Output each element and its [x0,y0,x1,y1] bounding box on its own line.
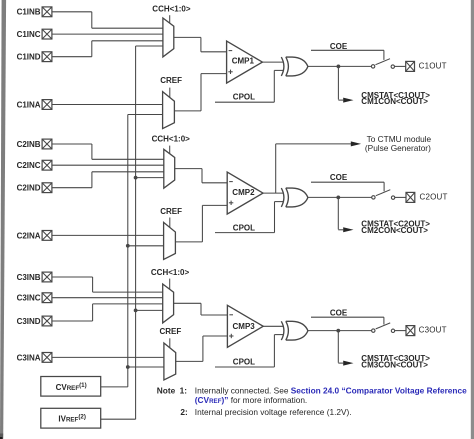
svg-text:Note: Note [157,385,176,395]
svg-text:CREF: CREF [160,207,182,216]
svg-text:CM2CON<COUT>: CM2CON<COUT> [361,226,428,235]
junction node (section 2) [336,196,340,200]
svg-text:COE: COE [330,308,348,317]
label CMSTAT/CM2CON bits [361,220,430,236]
label CMSTAT/CM1CON bits [361,91,430,106]
pin C2INA [17,231,52,241]
voltage reference IVREF [41,408,101,428]
pin C3IND [17,316,52,326]
wire to status bits (section 2) [338,197,343,229]
wire XOR output to switch [308,196,372,198]
switch (output enable, section 3) [372,323,395,333]
pin C3OUT [406,326,447,336]
svg-text:C1INC: C1INC [17,30,41,39]
svg-text:Internal precision voltage ref: Internal precision voltage reference (1.… [195,407,352,417]
wire CREF select (section 3) [169,338,171,349]
pin C3INB [17,272,52,282]
wire CREF mux output to CMP3 non-inverting input [176,336,228,361]
svg-text:C2INC: C2INC [17,161,41,170]
wire C3IND to CCH mux input 3 [52,304,163,321]
mux CCH (section 2) [164,149,175,188]
svg-text:CMP1: CMP1 [232,57,255,66]
wire C2INA to CREF mux input 1 [52,234,164,236]
svg-text:C1IND: C1IND [17,53,41,62]
svg-text:Internally connected. See Sect: Internally connected. See Section 24.0 “… [195,385,467,395]
node CVREF tap 2 [126,244,130,248]
wire CCH mux output to CMP2 inverting input [175,169,228,183]
wire CREF select (section 1) [169,88,171,98]
wire XOR output to switch [308,65,371,67]
pin C1IND [17,52,52,62]
mux CREF (section 2) [164,222,176,259]
arrow to status bits (section 2) [343,227,353,232]
svg-text:CREF: CREF [160,327,182,336]
mux CREF (section 1) [163,92,175,129]
wire COE enable to switch [311,182,384,191]
wire CCH select (section 3) [169,279,171,290]
svg-text:CCH<1:0>: CCH<1:0> [152,135,191,144]
svg-text:C1OUT: C1OUT [419,62,447,71]
op-amp CMP1 [227,41,263,83]
pin C2OUT [406,192,448,202]
wire C1INB to CCH mux input 1 [52,12,163,28]
svg-text:C1INB: C1INB [17,8,41,17]
switch (output enable, section 1) [371,59,394,69]
wire C3INC to CCH mux input 2 [52,297,163,299]
wire C3INB to CCH mux input 1 [52,277,163,292]
svg-text:C2INB: C2INB [17,140,41,149]
wire CMP3 output to XOR [263,325,284,327]
pin C1INB [17,7,52,17]
wire CREF mux output to CMP2 non-inverting input [175,205,227,242]
op-amp CMP3 [227,305,263,347]
wire CVREF output bus [101,115,163,387]
junction node (section 3) [336,329,340,333]
svg-text:(Pulse Generator): (Pulse Generator) [365,143,431,153]
svg-text:C3INB: C3INB [17,273,41,282]
note 2 text [180,407,351,417]
wire CCH select (section 2) [169,146,171,155]
svg-text:CPOL: CPOL [233,223,255,232]
pin C3INC [17,293,52,303]
svg-text:CM3CON<COUT>: CM3CON<COUT> [361,361,428,370]
wire CPOL to XOR input (section 1) [215,70,284,102]
wire C2INB to CCH mux input 1 [52,144,164,159]
mux CCH (section 3) [163,284,174,323]
wire COE enable to switch [311,317,384,324]
svg-text:C3INC: C3INC [17,294,41,303]
node IVREF tap 3 [134,309,138,313]
note 1 text [157,385,467,405]
wire COE enable to switch [311,50,384,60]
wire CPOL to XOR input (section 2) [215,202,284,233]
wire IVREF output bus [101,46,163,419]
wire to status bits (section 1) [338,66,343,100]
xor gate (polarity, section 3) [281,321,308,340]
pin C1OUT [406,61,447,71]
pin C1INC [17,29,52,39]
svg-text:CCH<1:0>: CCH<1:0> [152,5,191,14]
wire CCH mux output to CMP1 inverting input [174,37,227,51]
wire CVREF tap to CREF mux 2 [128,245,164,247]
wire CVREF tap to CREF mux 3 [128,366,164,368]
svg-text:CCH<1:0>: CCH<1:0> [151,268,190,277]
wire switch to C3OUT pin [395,330,406,332]
wire CMP2 output to XOR [263,192,284,194]
wire CPOL to XOR input (section 3) [215,335,284,367]
wire CCH mux output to CMP3 inverting input [174,303,228,315]
xor gate (polarity, section 2) [281,188,308,207]
wire CREF mux output to CMP1 non-inverting input [174,74,226,111]
wire CCH select (section 1) [169,15,171,23]
pin C2IND [17,183,52,193]
wire C1INC to CCH mux input 2 [52,33,163,35]
decorative left page edge (unlabelled ok) [0,0,6,439]
mux CCH (section 1) [163,18,174,57]
wire to status bits (section 3) [338,331,343,364]
wire C1IND to CCH mux input 3 [52,41,163,57]
op-amp CMP2 [227,172,263,214]
pin C3INA [17,353,52,363]
wire switch to C1OUT pin [395,65,406,67]
voltage reference CVREF [41,377,101,397]
svg-text:C3INA: C3INA [17,353,41,362]
svg-text:CMP2: CMP2 [232,188,255,197]
wire switch to C2OUT pin [395,196,406,198]
node CVREF tap 3 [126,365,130,369]
svg-text:CMP3: CMP3 [233,322,256,331]
label To CTMU module [365,134,432,153]
wire C2IND to CCH mux input 3 [52,172,164,188]
arrow to CTMU module [351,141,361,146]
pin C2INB [17,139,52,149]
junction node (section 1) [337,65,341,69]
arrow to status bits (section 1) [343,98,353,103]
svg-text:C3OUT: C3OUT [419,326,447,335]
wire XOR output to switch [308,330,372,332]
svg-text:COE: COE [330,42,348,51]
svg-text:C2OUT: C2OUT [420,193,448,202]
svg-text:CM1CON<COUT>: CM1CON<COUT> [361,97,428,106]
wire IVREF tap to CCH mux 3 [136,309,163,311]
wire IVREF tap to CCH mux 2 [136,177,164,179]
wire C3INA to CREF mux input 1 [52,356,164,358]
node IVREF tap 2 [134,176,138,180]
svg-text:CREF: CREF [160,76,182,85]
svg-text:CPOL: CPOL [233,358,255,367]
switch (output enable, section 2) [372,190,395,200]
mux CREF (section 3) [164,343,176,380]
svg-text:2:: 2: [180,407,187,417]
pin C2INC [17,160,52,170]
label CMSTAT/CM3CON bits [361,354,430,369]
svg-text:C2INA: C2INA [17,231,41,240]
wire CREF select (section 2) [169,218,171,229]
wire C1INA to CREF mux input 1 [52,104,163,106]
wire CMP1 output to XOR [262,61,283,63]
pin C1INA [17,100,52,110]
svg-text:C3IND: C3IND [17,317,41,326]
arrow to status bits (section 3) [343,361,353,366]
svg-text:1:: 1: [180,385,187,395]
svg-text:C1INA: C1INA [17,100,41,109]
svg-text:C2IND: C2IND [17,184,41,193]
wire CMP2 output to CTMU module [276,144,352,193]
svg-text:COE: COE [330,173,348,182]
xor gate (polarity, section 1) [281,57,308,76]
wire C2INC to CCH mux input 2 [52,164,164,166]
svg-text:CPOL: CPOL [233,93,255,102]
